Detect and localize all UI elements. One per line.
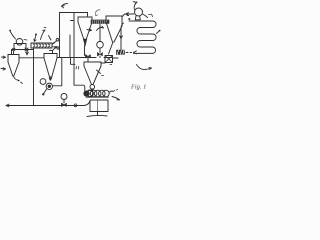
svg-text:Fig. 1: Fig. 1 (130, 84, 146, 91)
